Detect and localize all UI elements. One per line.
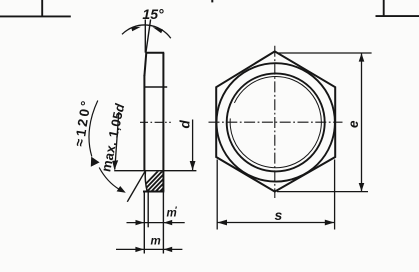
s extension line left — [216, 160, 218, 230]
table border fragment top-left: horizontal rule — [0, 15, 71, 17]
hexagon outline — [216, 51, 335, 191]
120 deg arc arrowhead — [91, 157, 100, 167]
m' right arrowhead — [164, 220, 173, 225]
chamfer circle — [217, 63, 335, 181]
120 deg leader line — [99, 168, 119, 190]
e extension line top — [277, 52, 372, 54]
120 deg leader arrowhead — [117, 186, 126, 193]
15 deg angle leg: vertical extension line — [144, 20, 146, 53]
table border fragment top-right: vertical rule — [383, 0, 385, 16]
e top arrowhead — [359, 53, 365, 61]
m dimension line — [116, 248, 182, 250]
extension line left outer (washer face) — [143, 192, 145, 254]
svg-text:e: e — [346, 120, 361, 128]
nut section: hex edge divider line — [144, 86, 167, 88]
s left arrowhead — [217, 220, 227, 226]
bore line — [114, 170, 196, 172]
section hatch — [137, 168, 187, 193]
hex vertical centerline (dash-dot) — [274, 46, 276, 198]
m right arrowhead — [164, 247, 173, 252]
svg-text:s: s — [275, 207, 283, 223]
table border fragment top-right: horizontal rule — [376, 15, 419, 17]
15 deg arc arrowhead left — [131, 27, 141, 31]
svg-text:m: m — [151, 236, 161, 248]
15 deg dimension arc — [122, 25, 171, 38]
s dimension line — [217, 222, 334, 224]
d dimension line — [192, 120, 194, 171]
120 deg angle arc — [89, 101, 98, 157]
nut axis centerline (dash-dot) — [140, 121, 171, 123]
nut section: left edge chamfer slant — [144, 53, 146, 76]
nut section: top edge — [145, 52, 164, 54]
d dimension arrowhead — [190, 161, 196, 170]
tick mark top-center — [211, 0, 213, 2]
svg-text:d: d — [178, 120, 193, 129]
nut section: right edge — [162, 53, 164, 192]
bore circle (thick) — [227, 73, 325, 171]
m' left arrowhead — [136, 220, 145, 225]
e bottom arrowhead — [359, 183, 365, 191]
15 deg angle leg: chamfer line extended — [146, 20, 151, 53]
e extension line bottom — [277, 191, 368, 193]
hex horizontal centerline (dash-dot) — [209, 121, 343, 123]
s extension line right — [334, 160, 336, 230]
nut section: bottom edge — [143, 191, 164, 193]
s right arrowhead — [325, 220, 335, 226]
svg-text:′: ′ — [175, 205, 177, 215]
thread circle (thin, with gap) — [230, 77, 321, 168]
nut section: left edge — [143, 75, 145, 171]
max 1,05d arrowhead — [112, 160, 118, 170]
max 1,05d dimension line — [115, 112, 119, 170]
extension line left inner — [147, 192, 149, 227]
m' dimension line — [127, 222, 185, 224]
countersink cone line extended — [127, 170, 145, 202]
extension line right — [162, 192, 164, 254]
table border fragment top-left: vertical rule — [41, 0, 43, 17]
e dimension line — [361, 53, 363, 192]
15 deg arc arrowhead right — [153, 27, 163, 33]
m left arrowhead — [135, 247, 144, 252]
countersink boundary of hatch — [145, 171, 147, 191]
